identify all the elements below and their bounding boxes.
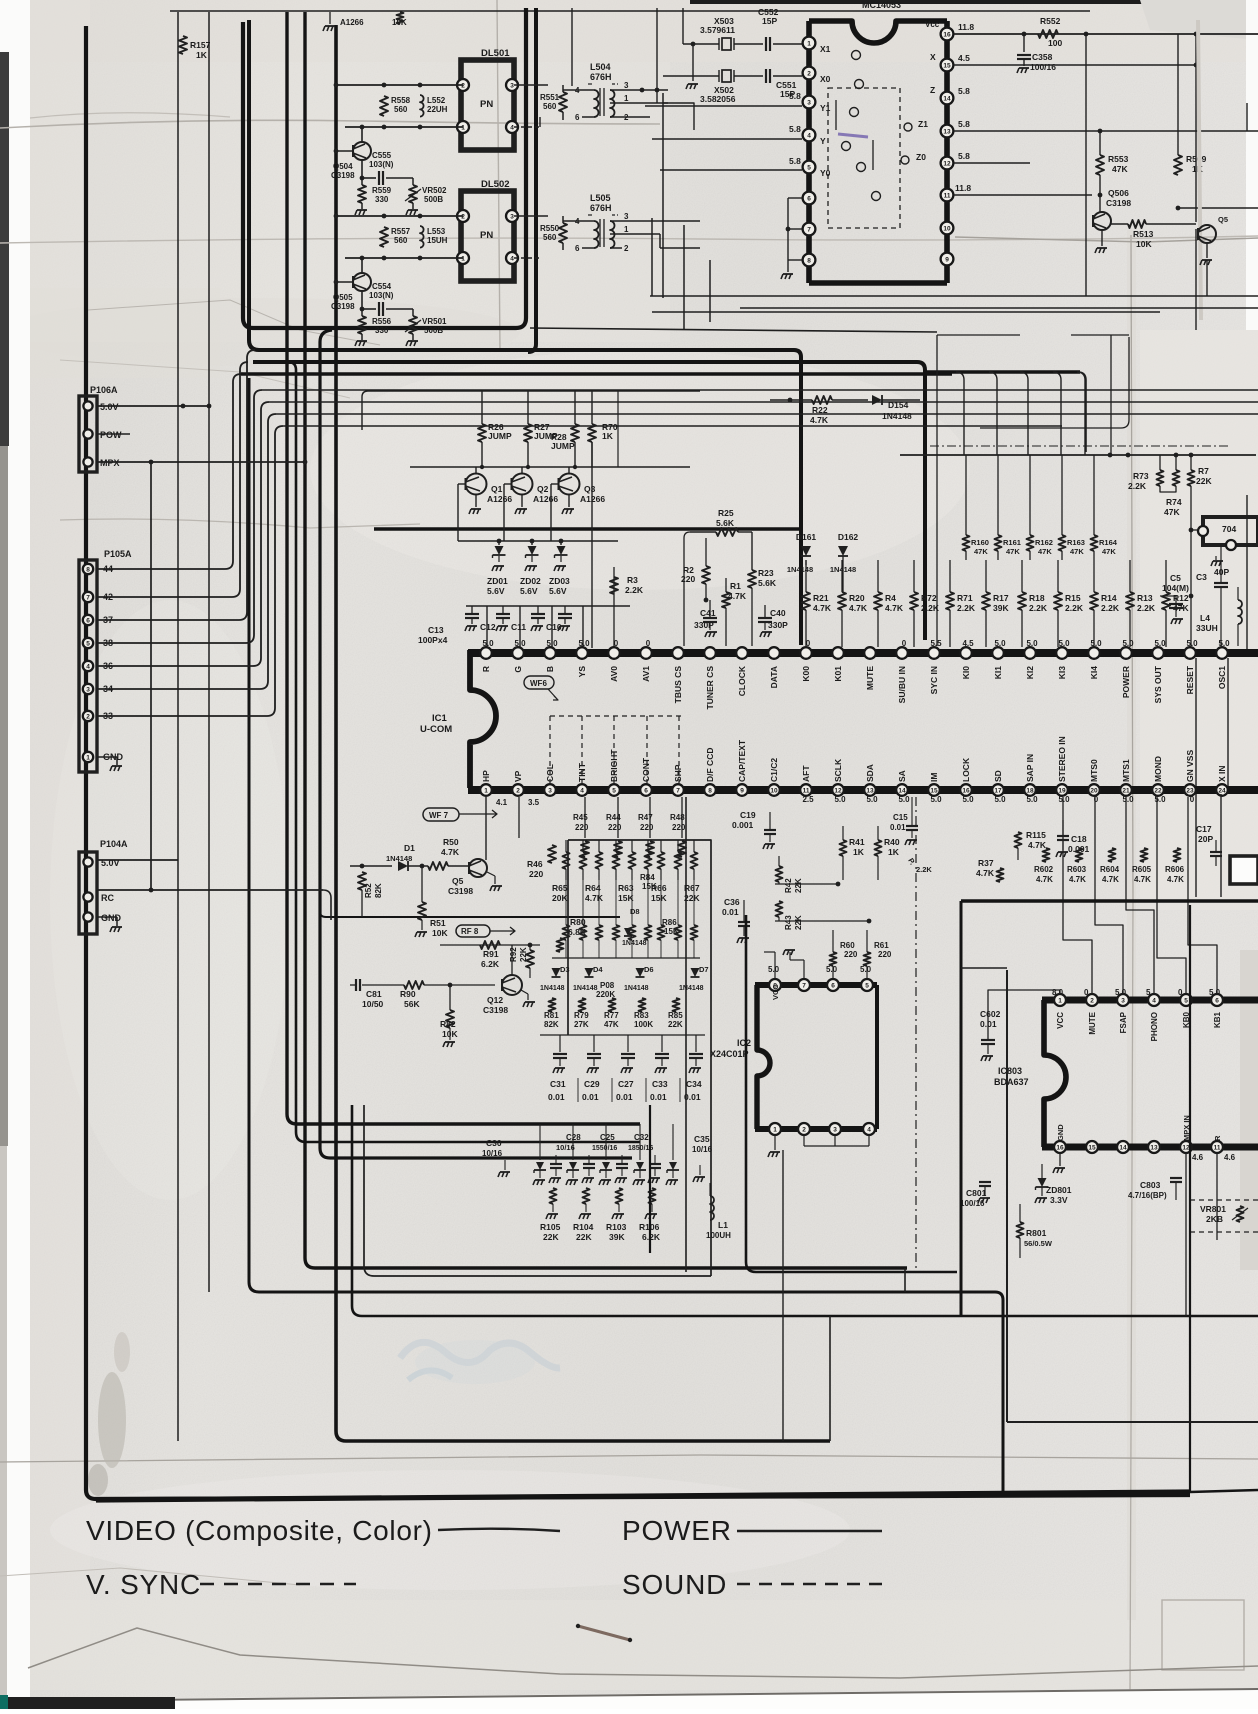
svg-text:5.0: 5.0	[930, 795, 942, 804]
svg-text:R90: R90	[400, 989, 416, 999]
resistor R557	[380, 227, 388, 247]
svg-text:14: 14	[1119, 1145, 1127, 1152]
svg-text:SU/BU IN: SU/BU IN	[897, 666, 907, 703]
svg-text:RF 8: RF 8	[461, 927, 479, 936]
svg-text:0: 0	[1084, 988, 1089, 997]
svg-text:4.7K: 4.7K	[1028, 840, 1047, 850]
svg-text:TUNER CS: TUNER CS	[705, 666, 715, 710]
pin IC2-2	[798, 1123, 810, 1135]
svg-text:1: 1	[773, 1127, 777, 1134]
svg-text:8: 8	[708, 788, 712, 795]
svg-text:R44: R44	[606, 813, 621, 822]
zener matrix	[572, 1124, 574, 1160]
crease top-left horizontal	[0, 120, 660, 128]
wire R557 row top	[336, 215, 463, 217]
pin DL502-4	[506, 252, 518, 264]
svg-text:SOUND: SOUND	[622, 1569, 727, 1600]
wire v1196 mid	[1195, 658, 1197, 786]
svg-text:22K: 22K	[668, 1020, 683, 1029]
svg-text:U-COM: U-COM	[420, 724, 452, 735]
resistor R550	[559, 223, 567, 243]
svg-text:330: 330	[375, 326, 389, 335]
pin IC1-t20 KI4	[1088, 647, 1100, 659]
svg-text:5.0: 5.0	[1058, 639, 1070, 648]
svg-text:R556: R556	[372, 317, 392, 326]
wire D1 row	[350, 865, 392, 867]
svg-text:R104: R104	[573, 1222, 594, 1232]
svg-text:1: 1	[1058, 998, 1062, 1005]
svg-text:L504: L504	[590, 62, 611, 72]
svg-text:2: 2	[807, 71, 811, 78]
svg-text:330: 330	[375, 195, 389, 204]
ground P104A	[97, 916, 117, 918]
wire Q-cluster rail2	[410, 466, 690, 468]
svg-text:3.582056: 3.582056	[700, 94, 736, 104]
svg-text:K00: K00	[801, 666, 811, 682]
capacitor C12	[471, 606, 473, 614]
wire r-cluster	[683, 560, 685, 646]
svg-text:VIDEO (Composite, Color): VIDEO (Composite, Color)	[86, 1515, 433, 1546]
svg-text:5.0: 5.0	[962, 795, 974, 804]
svg-text:R7: R7	[1198, 466, 1209, 476]
inductor L553	[420, 226, 424, 248]
capacitor C27	[627, 1035, 629, 1052]
wire pin12	[954, 162, 1030, 164]
wire thin rail y390	[262, 389, 1258, 391]
svg-text:3.3V: 3.3V	[1050, 1195, 1068, 1205]
svg-text:4.5: 4.5	[958, 53, 970, 63]
resistor R51	[421, 866, 423, 902]
wire matrix lower rail	[540, 1034, 705, 1036]
capacitor elco	[550, 1163, 562, 1165]
label RF8 oval	[456, 925, 490, 937]
svg-text:MOND: MOND	[1153, 756, 1163, 782]
svg-text:C12: C12	[480, 622, 496, 632]
svg-text:103(N): 103(N)	[369, 160, 394, 169]
ground Q12	[521, 990, 528, 994]
wire thin rail y426	[283, 425, 1062, 427]
wire ladder top rail	[900, 454, 1256, 456]
wire v686	[685, 797, 687, 1272]
svg-text:5.8: 5.8	[958, 119, 970, 129]
pin IC1-b16 LOCK	[960, 784, 972, 796]
svg-text:1K: 1K	[602, 431, 614, 441]
wire bus V536	[528, 8, 536, 352]
svg-text:K01: K01	[833, 666, 843, 682]
resistor mid pair row	[563, 925, 570, 940]
pin IC1-t6 AV1	[640, 647, 652, 659]
svg-text:20P: 20P	[1198, 834, 1213, 844]
wire v1228 mid	[1227, 658, 1229, 786]
svg-text:2.2K: 2.2K	[1128, 481, 1147, 491]
pin P105A-7 42	[83, 592, 93, 602]
svg-text:R801: R801	[1026, 1228, 1047, 1238]
svg-text:0.01: 0.01	[616, 1092, 633, 1102]
svg-text:0: 0	[1190, 795, 1195, 804]
svg-text:DATA: DATA	[769, 666, 779, 688]
svg-text:P106A: P106A	[90, 385, 118, 395]
svg-text:Q3: Q3	[584, 484, 596, 494]
svg-text:R65: R65	[552, 883, 568, 893]
svg-text:PN: PN	[480, 230, 493, 241]
svg-text:2: 2	[516, 788, 520, 795]
pin U501-4 Y	[803, 129, 816, 142]
svg-text:0: 0	[614, 639, 619, 648]
pin U501-2 X0	[803, 67, 816, 80]
pin IC2-5	[861, 979, 873, 991]
resistor R26	[481, 391, 483, 424]
svg-text:4: 4	[867, 1127, 871, 1134]
svg-text:R3: R3	[627, 575, 638, 585]
pin DL501-3	[506, 79, 518, 91]
svg-text:VR502: VR502	[422, 186, 447, 195]
wire vertical x178	[177, 12, 179, 1441]
wire v1221 low	[1220, 794, 1222, 897]
svg-text:1: 1	[86, 755, 90, 762]
svg-text:R74: R74	[1166, 497, 1182, 507]
wire vertical x209	[208, 12, 210, 1292]
svg-text:Q5: Q5	[1218, 215, 1228, 224]
resistor R37	[997, 868, 1004, 882]
pin IC1-t5 AV0	[608, 647, 620, 659]
ground crystal	[692, 44, 694, 81]
svg-text:Z: Z	[930, 85, 935, 95]
resistor R556	[360, 307, 365, 312]
svg-text:22K: 22K	[576, 1232, 592, 1242]
resistor R509	[1177, 34, 1179, 155]
resistor R603	[1076, 848, 1083, 862]
svg-text:L1: L1	[718, 1220, 728, 1230]
svg-text:0.01: 0.01	[650, 1092, 667, 1102]
svg-text:676H: 676H	[590, 72, 612, 82]
crease mid horizontal	[0, 236, 1258, 243]
svg-text:5.0: 5.0	[1115, 988, 1127, 997]
svg-text:5.0V: 5.0V	[100, 402, 119, 412]
capacitor C33	[661, 1035, 663, 1052]
capacitor C41	[703, 617, 717, 619]
wire R558 row bottom	[345, 126, 463, 128]
pin P105A-5 38	[83, 638, 93, 648]
svg-text:33UH: 33UH	[1196, 623, 1218, 633]
capacitor C5	[1169, 603, 1183, 605]
resistor R2	[702, 566, 710, 584]
svg-text:5.0: 5.0	[834, 795, 846, 804]
svg-text:1N4148: 1N4148	[573, 985, 598, 992]
resistor R83	[639, 998, 646, 1012]
diode D4	[585, 968, 594, 977]
ground IC803 pin16	[1059, 1153, 1061, 1166]
wire VP column	[518, 797, 520, 838]
svg-text:1K: 1K	[853, 847, 865, 857]
svg-text:0.01: 0.01	[890, 823, 906, 832]
svg-text:HP: HP	[481, 770, 491, 782]
svg-text:5.0: 5.0	[1090, 639, 1102, 648]
svg-text:R509: R509	[1186, 154, 1207, 164]
svg-text:27K: 27K	[574, 1020, 589, 1029]
resistor R551	[514, 84, 548, 86]
resistor R12	[1162, 592, 1170, 610]
svg-text:6: 6	[575, 244, 580, 253]
wire IC803 below	[1185, 1153, 1187, 1316]
transistor Q504	[353, 142, 371, 160]
wire H1 thin continuation	[530, 328, 937, 332]
svg-text:1N4148: 1N4148	[624, 985, 649, 992]
pin P106A-1 5.0V	[83, 401, 92, 410]
pin IC1-t24 OSC1	[1216, 647, 1228, 659]
wire bus V336 bottom L	[336, 25, 830, 1441]
wire v783	[782, 1150, 784, 1441]
svg-text:C25: C25	[600, 1133, 615, 1142]
svg-text:5.6K: 5.6K	[758, 578, 777, 588]
capacitor elco	[583, 1163, 595, 1165]
ground Q506	[1101, 230, 1103, 246]
svg-text:SYC IN: SYC IN	[929, 666, 939, 694]
svg-text:15: 15	[930, 788, 938, 795]
wire R7 column	[1190, 486, 1192, 646]
wire v684	[683, 225, 685, 330]
svg-text:P105A: P105A	[104, 549, 132, 559]
resistor R606	[1174, 848, 1181, 862]
wire v1196 low	[1195, 794, 1197, 897]
svg-text:18: 18	[1026, 788, 1034, 795]
crease bottom wavy	[28, 1628, 1258, 1678]
svg-text:2.2K: 2.2K	[916, 865, 932, 874]
wire v1247 mid	[1246, 495, 1248, 649]
pin U501-15	[941, 59, 954, 72]
svg-text:4.7K: 4.7K	[1167, 875, 1184, 884]
svg-text:JUMP: JUMP	[488, 431, 512, 441]
svg-text:100/16: 100/16	[1030, 62, 1056, 72]
svg-text:22K: 22K	[543, 1232, 559, 1242]
resistor R558	[380, 96, 388, 116]
svg-text:L4: L4	[1200, 613, 1210, 623]
zener ZD03	[560, 541, 562, 545]
svg-text:4.5: 4.5	[962, 639, 974, 648]
svg-text:6: 6	[644, 788, 648, 795]
box IC803 enclosure	[961, 967, 1007, 969]
svg-text:R557: R557	[391, 227, 411, 236]
svg-text:RC: RC	[101, 893, 114, 903]
zener matrix	[539, 1124, 541, 1160]
svg-text:4.7K: 4.7K	[810, 415, 829, 425]
transistor Q2	[512, 474, 533, 495]
svg-text:R82: R82	[440, 1019, 456, 1029]
svg-text:C27: C27	[618, 1079, 634, 1089]
svg-text:2.2K: 2.2K	[1137, 603, 1156, 613]
pin IC1-t15 SYC IN	[928, 647, 940, 659]
resistors R160-R164	[963, 535, 970, 551]
pin U501-16	[941, 28, 954, 41]
pin IC803-2 MUTE	[1086, 994, 1098, 1006]
svg-text:R23: R23	[758, 568, 774, 578]
svg-text:ZD801: ZD801	[1046, 1185, 1072, 1195]
resistor R553	[1099, 131, 1101, 155]
ic IC1 bottom pin bar	[468, 786, 1258, 794]
resistor R79	[579, 998, 586, 1012]
wire pin13	[954, 130, 1258, 132]
svg-text:4: 4	[807, 133, 811, 140]
wire ladder drop curves	[956, 372, 964, 455]
pin U501-13	[941, 125, 954, 138]
svg-text:47K: 47K	[1164, 507, 1180, 517]
resistor R605	[1141, 848, 1148, 862]
svg-text:C15: C15	[893, 813, 908, 822]
svg-text:15P: 15P	[762, 16, 777, 26]
ground IC2 pin7	[803, 960, 805, 979]
svg-text:5.0: 5.0	[1026, 639, 1038, 648]
fold crease vertical	[1127, 230, 1136, 1620]
zener matrix	[672, 1124, 674, 1160]
pin IC803-1 VCC	[1054, 994, 1066, 1006]
potentiometer VR502	[412, 178, 414, 185]
ground Q504	[361, 203, 363, 209]
svg-text:22K: 22K	[1196, 476, 1212, 486]
legend POWER line	[737, 1530, 882, 1532]
svg-text:560: 560	[543, 233, 557, 242]
svg-text:5.0: 5.0	[1154, 639, 1166, 648]
svg-text:C3198: C3198	[1106, 198, 1131, 208]
svg-text:R18: R18	[1029, 593, 1045, 603]
pin IC2-3	[829, 1123, 841, 1135]
wire U501 pins 6-8	[788, 197, 802, 199]
pin P105A-1 GND	[83, 752, 93, 762]
svg-text:6: 6	[1215, 998, 1219, 1005]
ground Q505	[361, 334, 363, 340]
pin U501-5 Y0	[803, 161, 816, 174]
svg-text:R550: R550	[540, 224, 560, 233]
svg-text:220: 220	[529, 869, 543, 879]
zener ZD02	[531, 541, 533, 545]
resistor R81	[549, 998, 556, 1012]
svg-text:Y: Y	[820, 136, 826, 146]
wire R558 row top	[336, 84, 463, 86]
capacitor elco	[649, 1163, 661, 1165]
svg-text:5.0: 5.0	[1154, 795, 1166, 804]
svg-text:IC803: IC803	[998, 1066, 1022, 1076]
svg-text:47K: 47K	[1112, 164, 1128, 174]
ic IC1 top pin bar	[468, 649, 1258, 657]
pin IC1-b3 COL	[544, 784, 556, 796]
zener matrix	[605, 1124, 607, 1160]
svg-text:KI2: KI2	[1025, 666, 1035, 680]
svg-text:330P: 330P	[694, 620, 714, 630]
pin IC803-15 p	[1086, 1141, 1098, 1153]
svg-text:B: B	[545, 666, 555, 672]
svg-text:C5: C5	[1170, 573, 1181, 583]
resistor R18	[1018, 592, 1026, 610]
pin IC1-t3 B	[544, 647, 556, 659]
pin IC803-5 KB0	[1180, 994, 1192, 1006]
wire bus V287 loop	[287, 12, 640, 1124]
resistor R13	[1126, 592, 1134, 610]
svg-text:L553: L553	[427, 227, 446, 236]
pin DL502-2	[457, 210, 469, 222]
svg-text:5: 5	[1184, 998, 1188, 1005]
dashed audio box	[1190, 1199, 1258, 1201]
capacitor C554	[361, 291, 363, 309]
svg-text:7: 7	[802, 983, 806, 990]
zener ZD801	[1038, 1178, 1047, 1187]
svg-text:2KB: 2KB	[1206, 1214, 1223, 1224]
svg-text:R85: R85	[668, 1011, 683, 1020]
wire L504 secondary	[622, 89, 668, 91]
ground VR502	[412, 203, 414, 209]
resistor R7	[1188, 470, 1195, 486]
svg-text:4: 4	[510, 125, 514, 132]
pin P105A-4 36	[83, 661, 93, 671]
svg-text:SYS OUT: SYS OUT	[1153, 665, 1163, 703]
svg-text:100/16: 100/16	[960, 1199, 985, 1208]
pin U501-10	[941, 222, 954, 235]
svg-text:220: 220	[575, 823, 589, 832]
svg-text:R161: R161	[1003, 538, 1021, 547]
separator ticks	[577, 1078, 579, 1102]
pin IC2-4	[863, 1123, 875, 1135]
svg-text:5.0: 5.0	[578, 639, 590, 648]
diode D6	[636, 968, 645, 977]
svg-text:2.5: 2.5	[802, 795, 814, 804]
svg-text:12: 12	[943, 161, 951, 168]
svg-text:8: 8	[86, 567, 90, 574]
svg-text:R4: R4	[885, 593, 896, 603]
svg-text:7: 7	[676, 788, 680, 795]
svg-text:3: 3	[624, 212, 629, 221]
svg-text:R: R	[481, 666, 491, 672]
svg-text:CONT: CONT	[641, 757, 651, 782]
resistor R40	[875, 840, 882, 856]
svg-text:3: 3	[86, 687, 90, 694]
svg-text:R: R	[1213, 1135, 1222, 1141]
svg-text:5.0: 5.0	[994, 795, 1006, 804]
resistor R90	[404, 981, 424, 989]
svg-text:R162: R162	[1035, 538, 1053, 547]
svg-text:C29: C29	[584, 1079, 600, 1089]
svg-text:ZD02: ZD02	[520, 576, 541, 586]
svg-text:1: 1	[461, 256, 465, 263]
svg-text:FSAP: FSAP	[1119, 1011, 1128, 1033]
svg-text:D6: D6	[644, 965, 654, 974]
svg-text:R603: R603	[1067, 865, 1087, 874]
svg-text:CAP/TEXT: CAP/TEXT	[737, 739, 747, 782]
resistor R48	[681, 797, 683, 838]
staple mark	[578, 1626, 630, 1640]
svg-text:3: 3	[548, 788, 552, 795]
svg-text:100Px4: 100Px4	[418, 635, 448, 645]
svg-text:Z1: Z1	[918, 119, 928, 129]
wire bus V249-H2	[249, 20, 801, 645]
svg-text:560: 560	[543, 102, 557, 111]
pin IC803-13 p	[1148, 1141, 1160, 1153]
svg-text:7: 7	[86, 595, 90, 602]
svg-text:3: 3	[1121, 998, 1125, 1005]
svg-text:11.8: 11.8	[958, 22, 974, 32]
resistor R28	[574, 391, 576, 424]
svg-text:10: 10	[943, 226, 951, 233]
pin IC2-7	[798, 979, 810, 991]
wire pin11	[954, 194, 1092, 196]
svg-text:C1/C2: C1/C2	[769, 758, 779, 782]
svg-text:R81: R81	[544, 1011, 559, 1020]
svg-text:6: 6	[831, 983, 835, 990]
svg-text:220: 220	[640, 823, 654, 832]
svg-text:YS: YS	[577, 666, 587, 678]
ground P105A	[97, 756, 117, 758]
svg-text:P104A: P104A	[100, 839, 128, 849]
svg-text:4.7K: 4.7K	[1102, 875, 1119, 884]
pin IC1-t19 KI3	[1056, 647, 1068, 659]
resistor R552	[1038, 30, 1058, 38]
diode D161	[805, 455, 807, 545]
